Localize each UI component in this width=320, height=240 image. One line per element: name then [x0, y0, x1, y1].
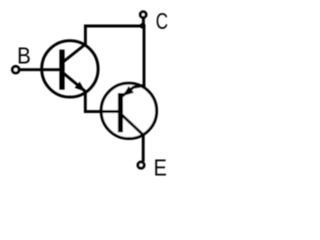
wire Q2 base from Q1 emitter [99, 110, 121, 113]
Q2 emitter arrowhead [123, 86, 134, 96]
transistor Q2 (PNP) circle [101, 83, 156, 138]
transistor Q2 base bar [118, 93, 123, 132]
node B terminal circle [12, 66, 19, 73]
Q1 emitter arrowhead [75, 82, 86, 92]
junction dot at C rail [140, 23, 146, 29]
svg-text:C: C [156, 8, 168, 34]
wire Q2 collector down to E [122, 115, 144, 162]
transistor Q1 base bar [59, 50, 64, 90]
wire Q1 emitter to Q2 base [63, 72, 121, 111]
svg-text:B: B [17, 42, 31, 68]
wire junction to C terminal [142, 18, 145, 27]
wire Q2 emitter up to rail [122, 86, 144, 97]
wire Q1 collector to top rail [63, 26, 144, 62]
node E terminal circle [138, 162, 144, 168]
node C terminal circle [140, 12, 146, 18]
wire B to Q1 base [19, 68, 62, 71]
svg-text:E: E [154, 154, 167, 180]
transistor Q1 (NPN) circle [42, 41, 98, 97]
wire junction down to Q2 emitter [143, 26, 146, 88]
